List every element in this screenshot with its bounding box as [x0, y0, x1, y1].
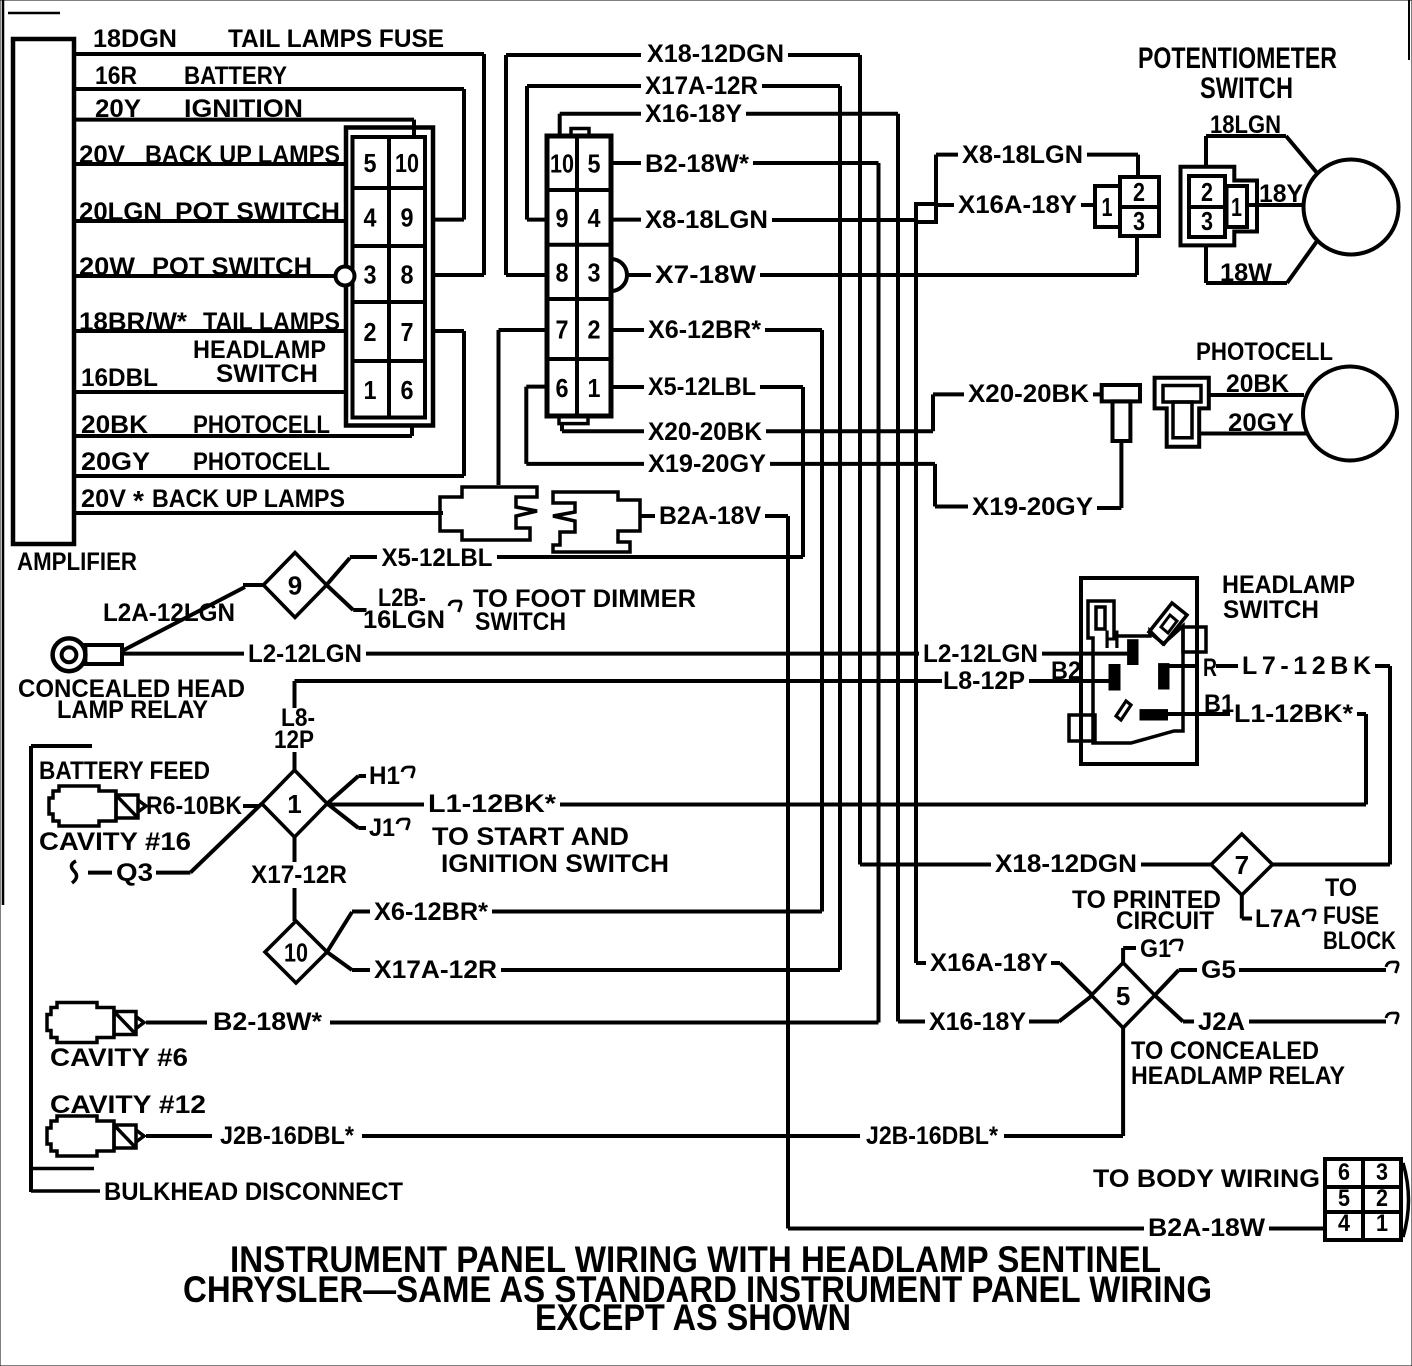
svg-text:SWITCH: SWITCH [216, 360, 318, 388]
svg-text:18Y: 18Y [1259, 180, 1303, 208]
svg-text:X17A-12R: X17A-12R [374, 956, 497, 984]
svg-text:X16A-18Y: X16A-18Y [930, 949, 1048, 977]
svg-text:L2-12LGN: L2-12LGN [923, 640, 1038, 668]
svg-text:5: 5 [1338, 1185, 1350, 1212]
svg-text:B2A-18W: B2A-18W [1148, 1214, 1265, 1242]
svg-text:2: 2 [1201, 177, 1213, 207]
svg-text:TO CONCEALED: TO CONCEALED [1131, 1037, 1319, 1065]
svg-text:CAVITY #16: CAVITY #16 [39, 828, 191, 856]
svg-text:X19-20GY: X19-20GY [972, 493, 1093, 521]
svg-text:L2-12LGN: L2-12LGN [248, 640, 362, 668]
svg-text:POT SWITCH: POT SWITCH [152, 253, 312, 281]
svg-text:J2B-16DBL*: J2B-16DBL* [220, 1122, 354, 1150]
svg-text:CAVITY #6: CAVITY #6 [50, 1044, 188, 1072]
svg-text:16DBL: 16DBL [81, 364, 158, 392]
svg-text:6: 6 [1338, 1159, 1350, 1186]
svg-text:J2A: J2A [1198, 1008, 1245, 1036]
svg-text:7: 7 [1235, 850, 1249, 880]
svg-text:7: 7 [401, 317, 414, 347]
svg-text:1: 1 [287, 789, 301, 819]
svg-text:SWITCH: SWITCH [475, 608, 566, 636]
svg-text:16LGN: 16LGN [363, 606, 445, 634]
svg-text:BLOCK: BLOCK [1323, 927, 1396, 955]
svg-text:R: R [1203, 654, 1217, 682]
svg-text:BULKHEAD DISCONNECT: BULKHEAD DISCONNECT [104, 1178, 403, 1206]
svg-text:10: 10 [395, 148, 419, 178]
svg-text:20V: 20V [79, 141, 125, 169]
svg-text:10: 10 [550, 149, 574, 179]
svg-text:B2A-18V: B2A-18V [659, 502, 761, 530]
svg-text:POTENTIOMETER: POTENTIOMETER [1138, 42, 1337, 75]
svg-text:POT SWITCH: POT SWITCH [175, 198, 340, 226]
svg-text:2: 2 [1133, 177, 1145, 207]
svg-text:TAIL LAMPS: TAIL LAMPS [203, 308, 340, 336]
svg-text:L1-12BK*: L1-12BK* [1234, 700, 1353, 728]
svg-text:G1: G1 [1140, 935, 1171, 963]
svg-text:X16-18Y: X16-18Y [645, 100, 742, 128]
svg-text:3: 3 [364, 260, 377, 290]
svg-text:TO START AND: TO START AND [432, 823, 629, 851]
svg-text:X8-18LGN: X8-18LGN [962, 141, 1083, 169]
svg-text:2: 2 [1376, 1185, 1388, 1212]
svg-text:*: * [133, 485, 144, 516]
svg-text:X7-18W: X7-18W [655, 261, 756, 289]
svg-text:X8-18LGN: X8-18LGN [645, 206, 768, 234]
svg-text:X20-20BK: X20-20BK [648, 418, 762, 446]
svg-text:3: 3 [1376, 1159, 1388, 1186]
svg-text:4: 4 [1338, 1210, 1351, 1237]
svg-text:8: 8 [401, 260, 414, 290]
svg-text:H1: H1 [369, 762, 400, 790]
svg-text:18DGN: 18DGN [93, 25, 177, 53]
svg-text:B2-18W*: B2-18W* [213, 1008, 322, 1036]
svg-text:1: 1 [1376, 1210, 1388, 1237]
svg-text:20BK: 20BK [81, 411, 148, 439]
svg-text:1: 1 [1102, 192, 1113, 222]
svg-text:L2A-12LGN: L2A-12LGN [103, 599, 235, 627]
svg-text:X20-20BK: X20-20BK [968, 380, 1089, 408]
svg-text:X18-12DGN: X18-12DGN [647, 40, 784, 68]
svg-text:CIRCUIT: CIRCUIT [1116, 907, 1214, 935]
svg-text:20Y: 20Y [95, 95, 141, 123]
svg-text:J1: J1 [369, 814, 395, 842]
svg-text:HEADLAMP RELAY: HEADLAMP RELAY [1131, 1062, 1345, 1090]
svg-text:8: 8 [556, 257, 569, 287]
svg-text:R6-10BK: R6-10BK [146, 792, 242, 820]
svg-text:X17-12R: X17-12R [251, 861, 347, 889]
svg-text:SWITCH: SWITCH [1200, 72, 1293, 105]
svg-text:X5-12LBL: X5-12LBL [648, 373, 756, 401]
svg-text:FUSE: FUSE [1323, 902, 1379, 930]
svg-text:X16-18Y: X16-18Y [929, 1008, 1026, 1036]
svg-text:18W: 18W [1220, 259, 1272, 287]
svg-text:20V: 20V [81, 485, 126, 513]
svg-text:20LGN: 20LGN [79, 198, 162, 226]
svg-text:X5-12LBL: X5-12LBL [382, 544, 493, 572]
svg-text:L8-12P: L8-12P [943, 667, 1025, 695]
svg-text:4: 4 [588, 203, 601, 233]
svg-text:6: 6 [556, 373, 569, 403]
svg-text:X6-12BR*: X6-12BR* [648, 316, 761, 344]
svg-text:X6-12BR*: X6-12BR* [374, 898, 488, 926]
svg-text:1: 1 [364, 375, 377, 405]
svg-text:B2: B2 [1051, 657, 1081, 685]
svg-text:9: 9 [556, 203, 569, 233]
svg-text:2: 2 [588, 315, 601, 345]
svg-text:X16A-18Y: X16A-18Y [958, 191, 1077, 219]
svg-text:20GY: 20GY [1228, 409, 1294, 437]
svg-text:X19-20GY: X19-20GY [648, 450, 766, 478]
svg-text:PHOTOCELL: PHOTOCELL [193, 411, 330, 439]
svg-text:4: 4 [364, 203, 377, 233]
svg-text:Q3: Q3 [116, 859, 153, 887]
svg-text:6: 6 [401, 375, 414, 405]
svg-text:5: 5 [588, 149, 601, 179]
svg-text:H: H [1104, 626, 1120, 654]
svg-text:20BK: 20BK [1226, 370, 1289, 398]
svg-text:SWITCH: SWITCH [1223, 596, 1319, 624]
svg-text:BACK UP LAMPS: BACK UP LAMPS [145, 141, 340, 169]
svg-text:TAIL LAMPS FUSE: TAIL LAMPS FUSE [228, 25, 444, 53]
svg-text:IGNITION SWITCH: IGNITION SWITCH [441, 850, 669, 878]
svg-text:10: 10 [284, 938, 308, 968]
svg-text:PHOTOCELL: PHOTOCELL [1196, 338, 1333, 366]
svg-text:X18-12DGN: X18-12DGN [995, 850, 1137, 878]
svg-text:20W: 20W [79, 253, 135, 281]
svg-text:9: 9 [401, 203, 414, 233]
svg-text:5: 5 [364, 148, 377, 178]
svg-text:18BR/W*: 18BR/W* [79, 308, 187, 336]
svg-text:7: 7 [556, 315, 569, 345]
svg-text:L1-12BK*: L1-12BK* [428, 790, 556, 818]
svg-text:1: 1 [588, 373, 601, 403]
svg-text:16R: 16R [95, 62, 137, 90]
svg-text:X17A-12R: X17A-12R [645, 72, 758, 100]
svg-text:BATTERY: BATTERY [184, 62, 287, 90]
svg-text:1: 1 [1231, 192, 1242, 222]
svg-text:AMPLIFIER: AMPLIFIER [17, 548, 137, 576]
svg-text:J2B-16DBL*: J2B-16DBL* [866, 1122, 998, 1150]
svg-text:TO: TO [1325, 874, 1357, 902]
svg-text:EXCEPT AS SHOWN: EXCEPT AS SHOWN [535, 1297, 851, 1338]
svg-text:5: 5 [1116, 981, 1130, 1011]
svg-text:BATTERY FEED: BATTERY FEED [39, 757, 210, 785]
svg-text:HEADLAMP: HEADLAMP [1222, 571, 1355, 599]
svg-text:20GY: 20GY [81, 448, 150, 476]
svg-text:LAMP RELAY: LAMP RELAY [57, 696, 208, 724]
svg-text:3: 3 [1201, 206, 1213, 236]
svg-text:TO BODY WIRING: TO BODY WIRING [1093, 1165, 1320, 1193]
svg-text:B2-18W*: B2-18W* [645, 150, 749, 178]
svg-text:L7A: L7A [1255, 905, 1301, 933]
svg-text:12P: 12P [274, 726, 314, 754]
svg-text:3: 3 [1133, 206, 1145, 236]
svg-text:PHOTOCELL: PHOTOCELL [193, 448, 330, 476]
svg-text:9: 9 [288, 571, 302, 601]
svg-text:G5: G5 [1201, 956, 1236, 984]
svg-text:2: 2 [364, 317, 377, 347]
svg-text:3: 3 [588, 257, 601, 287]
svg-text:BACK UP LAMPS: BACK UP LAMPS [152, 485, 345, 513]
svg-text:IGNITION: IGNITION [184, 95, 303, 123]
